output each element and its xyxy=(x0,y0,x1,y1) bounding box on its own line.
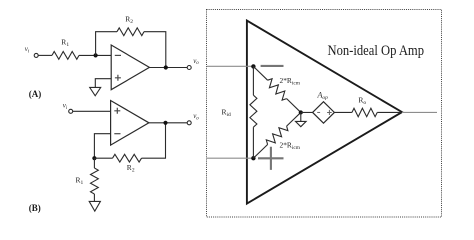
resistor 2*Ricm lower xyxy=(253,145,267,159)
svg-text:(A): (A) xyxy=(29,89,42,99)
node output junction (A) xyxy=(164,65,168,69)
wire R2 up to output (B) xyxy=(142,123,166,158)
dependent source Aop diamond xyxy=(313,102,335,124)
plus sign input (A) xyxy=(115,75,121,81)
wire output (A) xyxy=(149,67,187,69)
svg-text:Aop: Aop xyxy=(317,90,329,101)
wire R1 to inverting input xyxy=(79,54,111,56)
svg-text:Non-ideal Op Amp: Non-ideal Op Amp xyxy=(328,43,425,59)
wire Ro to output apex xyxy=(377,111,402,113)
svg-text:2*Ricm: 2*Ricm xyxy=(280,141,301,152)
ground center xyxy=(300,112,302,121)
node vo output terminal (A) xyxy=(187,66,191,70)
wire output (B) xyxy=(149,122,187,124)
ground (B) xyxy=(89,201,100,211)
svg-text:(B): (B) xyxy=(29,203,41,213)
node inverting input xyxy=(251,64,255,68)
svg-text:R1: R1 xyxy=(76,175,84,186)
op-amp triangle (A) xyxy=(111,45,149,90)
resistor Rid between inputs xyxy=(252,66,254,95)
resistor 2*Ricm upper xyxy=(253,66,267,80)
minus sign input (B) xyxy=(114,133,120,135)
dotted border box xyxy=(207,10,442,218)
resistor Ro xyxy=(352,108,377,117)
op-amp triangle (B) xyxy=(111,101,149,146)
svg-text:vi: vi xyxy=(25,45,30,54)
resistor R1 (B) xyxy=(93,158,95,168)
wire output (gray) xyxy=(402,111,437,113)
wire node to dependent source xyxy=(301,111,313,113)
node junction feedback (B) xyxy=(92,156,96,160)
wire R2 to output node (A) xyxy=(144,32,166,68)
op-amp body triangle U1 xyxy=(247,21,402,204)
plus sign input (B) xyxy=(114,108,120,114)
resistor R2 (B) xyxy=(113,154,142,162)
node non-inverting input xyxy=(251,156,255,160)
wire node to R2 (B) xyxy=(94,157,112,159)
ground (A) xyxy=(90,87,101,95)
svg-text:vi: vi xyxy=(63,101,68,110)
minus sign input (A) xyxy=(115,54,121,56)
plus marker non-inverting input xyxy=(258,147,284,170)
svg-text:Rid: Rid xyxy=(222,107,232,118)
wire source to Ro xyxy=(334,111,352,113)
svg-text:R2: R2 xyxy=(127,163,135,174)
svg-text:vo: vo xyxy=(193,57,199,66)
svg-text:R1: R1 xyxy=(61,38,69,49)
minus marker inverting input xyxy=(261,65,284,67)
wire minus input down to node (B) xyxy=(94,134,110,159)
node vo output terminal (B) xyxy=(187,121,191,125)
svg-text:vo: vo xyxy=(193,112,199,121)
node common center xyxy=(299,110,303,114)
wire vi to R1 xyxy=(38,54,52,56)
resistor R2 (A) xyxy=(117,28,144,36)
wire feedback up and across (A) xyxy=(96,32,117,56)
resistor R1 (A) xyxy=(52,52,79,60)
wire inverting input (gray) xyxy=(207,65,252,67)
wire R1 to ground (B) xyxy=(93,194,95,201)
svg-text:2*Ricm: 2*Ricm xyxy=(280,76,301,87)
wire vi to plus input (B) xyxy=(73,110,111,112)
node junction inverting input (A) xyxy=(94,53,98,57)
svg-text:R2: R2 xyxy=(125,15,133,26)
wire plus input to ground (A) xyxy=(95,79,111,88)
node output junction (B) xyxy=(163,121,167,125)
svg-text:Ro: Ro xyxy=(358,95,366,106)
wire non-inverting input (gray) xyxy=(207,157,252,159)
